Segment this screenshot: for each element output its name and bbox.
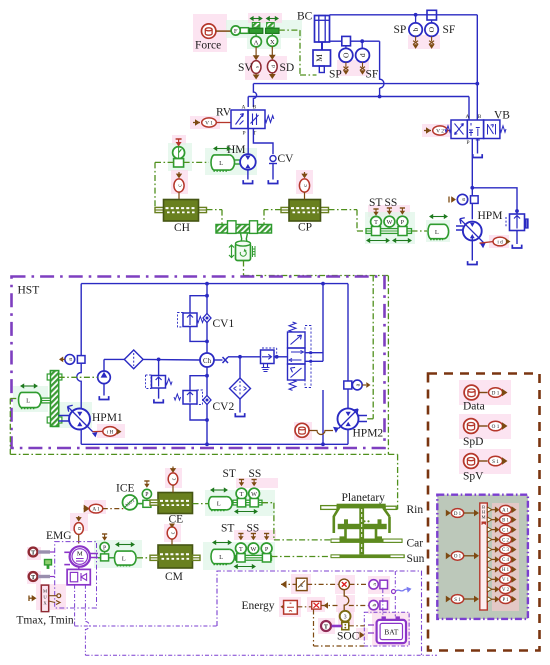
speed sensor A — [255, 33, 257, 36]
wire force to F — [216, 30, 232, 32]
svg-text:C 4: C 4 — [502, 558, 509, 563]
svg-text:M: M — [314, 54, 324, 62]
svg-text:s: s — [255, 66, 261, 68]
Rin stub — [385, 506, 396, 509]
BAT dashed box — [364, 612, 409, 646]
svg-text:A: A — [242, 105, 246, 111]
wire HST bottom line — [81, 443, 348, 445]
svg-text:A 1: A 1 — [92, 506, 100, 512]
svg-text:H 1: H 1 — [502, 568, 510, 573]
mass M of BC — [313, 50, 331, 66]
signal source V1 — [195, 119, 200, 125]
svg-text:c: c — [171, 477, 177, 480]
svg-text:Rin: Rin — [407, 504, 424, 516]
svg-text:a: a — [356, 383, 362, 386]
wire to junction — [351, 40, 380, 42]
shaft ICE to CE — [138, 503, 143, 505]
divide block — [281, 603, 287, 611]
MUX block — [41, 585, 48, 612]
check valve CV — [270, 156, 276, 162]
svg-text:Force: Force — [195, 40, 221, 52]
pressure sensor on HST left line — [77, 356, 85, 364]
svg-text:ST: ST — [369, 197, 382, 209]
output A1 — [487, 507, 492, 512]
mech line sensor to HM — [184, 161, 209, 163]
row1 sensor T — [239, 479, 244, 481]
signal to SV — [255, 47, 257, 56]
pressure sensor b — [415, 15, 417, 23]
battery BAT — [377, 620, 406, 643]
X multiplier — [297, 606, 311, 608]
speed sensor P of ICE — [144, 480, 149, 482]
svg-text:B 1: B 1 — [502, 518, 509, 523]
svg-text:L: L — [219, 160, 223, 167]
svg-text:BC: BC — [297, 11, 313, 23]
svg-text:M: M — [482, 515, 486, 520]
check diamond CV2 — [203, 396, 211, 405]
relief valve — [510, 214, 525, 231]
input S1 — [446, 596, 451, 603]
svg-text:T: T — [240, 491, 244, 498]
svg-text:L: L — [122, 555, 126, 562]
feedback loop — [349, 625, 365, 627]
pressure sensor a with square — [471, 196, 479, 204]
mech line CH to coupling — [207, 209, 223, 211]
signal source V2 — [426, 127, 431, 133]
svg-text:C 2: C 2 — [502, 538, 509, 543]
junction to filter2 — [238, 355, 242, 359]
svg-text:V 2: V 2 — [436, 128, 444, 134]
position sensor O — [345, 46, 347, 49]
mech motor to CM — [137, 557, 150, 559]
svg-text:Data: Data — [463, 401, 485, 413]
ground below d — [362, 62, 364, 67]
svg-text:P: P — [401, 219, 405, 226]
svg-text:P: P — [466, 140, 469, 146]
wires converter down — [74, 585, 76, 626]
output C2 — [487, 537, 492, 542]
row1 sensor W — [252, 479, 257, 481]
output P1 — [487, 597, 492, 602]
data sink O above EMG — [78, 516, 80, 520]
motor EMG — [70, 546, 90, 566]
svg-text:L: L — [26, 397, 30, 404]
output C4 — [487, 557, 492, 562]
svg-text:Car: Car — [407, 538, 424, 550]
legend Data — [464, 385, 479, 400]
svg-text:SP: SP — [329, 69, 342, 81]
clutch CE — [158, 493, 193, 514]
input O1 — [446, 552, 451, 559]
svg-text:SP: SP — [394, 24, 407, 36]
wire VB P down to HPM — [471, 139, 473, 220]
HST motor — [31, 392, 41, 407]
node Ch — [200, 353, 214, 367]
charge pump — [98, 371, 111, 384]
svg-text:M: M — [43, 589, 47, 594]
shaft with connectors — [366, 229, 412, 234]
svg-text:T: T — [31, 551, 35, 557]
mech row2 to sun — [272, 556, 331, 558]
wire rod-line vertical with hop — [380, 41, 384, 88]
wire HM to tank — [247, 170, 249, 180]
svg-text:EMG: EMG — [46, 530, 72, 542]
mech control line coupling to HPM2 — [243, 261, 245, 276]
top sensors: junction — [414, 13, 418, 17]
multiply node — [307, 583, 339, 585]
svg-text:HST: HST — [18, 285, 40, 297]
svg-text:SS: SS — [249, 468, 262, 480]
svg-text:k: k — [300, 583, 303, 589]
svg-text:c: c — [303, 184, 309, 187]
3pos valve — [288, 332, 306, 348]
svg-text:V 2: V 2 — [502, 588, 510, 593]
mech input line — [10, 398, 18, 400]
svg-text:M: M — [77, 551, 83, 558]
mech line CP to coupling — [264, 209, 281, 211]
junction — [470, 186, 474, 190]
svg-text:SV: SV — [238, 62, 253, 74]
svg-text:c: c — [178, 184, 184, 187]
svg-text:BAT: BAT — [384, 628, 399, 637]
engine ICE — [122, 495, 137, 510]
svg-text:Energy: Energy — [242, 600, 275, 612]
flow sensor O2 — [431, 20, 433, 23]
row1 motor — [222, 497, 233, 510]
data sink C above CE — [172, 467, 174, 471]
svg-text:SD: SD — [280, 62, 295, 74]
elastic coupling shaft bar — [216, 225, 272, 234]
mech line from ST SS to motor — [412, 230, 428, 232]
ground below O — [345, 62, 347, 67]
svg-text:b: b — [372, 603, 378, 606]
data sink C above CP — [304, 172, 306, 176]
shaft to motor — [456, 225, 463, 227]
sensor square above O — [342, 36, 351, 45]
sensor pair2 — [349, 605, 369, 607]
svg-text:ICE: ICE — [116, 483, 135, 495]
svg-text:a: a — [461, 198, 467, 201]
clutch CP — [281, 207, 289, 212]
wire HST left vertical with hop — [77, 284, 81, 445]
svg-text:CP: CP — [298, 222, 312, 234]
output V2 — [487, 587, 492, 592]
gearbox — [50, 371, 58, 427]
gearbox to charge pump mech — [59, 376, 98, 378]
shaft gearbox to HPM1 — [59, 415, 69, 417]
svg-text:L: L — [219, 554, 223, 561]
svg-text:3: 3 — [344, 614, 347, 620]
svg-text:P: P — [265, 546, 269, 553]
displacement sensor X — [271, 33, 273, 35]
svg-text:L: L — [435, 229, 439, 236]
svg-text:X: X — [270, 39, 275, 46]
wire charge line — [104, 358, 125, 360]
svg-text:o: o — [77, 527, 83, 530]
output H1 — [487, 567, 492, 572]
wire HPM to tank — [471, 237, 473, 261]
data sink SV — [251, 61, 261, 74]
svg-text:W: W — [386, 219, 392, 226]
green coupler — [45, 560, 52, 565]
svg-text:V 1: V 1 — [502, 578, 510, 583]
valve RV body — [231, 110, 248, 129]
wire RV T to CV — [253, 129, 273, 155]
gain k — [296, 578, 307, 590]
legend SpD — [464, 419, 479, 434]
svg-text:C 1: C 1 — [502, 528, 509, 533]
compensator valve — [228, 356, 261, 358]
svg-text:B: B — [253, 105, 257, 111]
junction bottom — [321, 442, 325, 446]
output B1 — [487, 517, 492, 522]
svg-text:P: P — [103, 545, 106, 551]
row2 sensor P — [264, 533, 269, 535]
EMG boundary box — [55, 542, 97, 608]
filter2 — [230, 378, 251, 399]
svg-text:RV: RV — [216, 107, 232, 119]
signal to SD — [271, 46, 273, 55]
mass M1 with friction — [249, 28, 262, 33]
svg-text:Tmax, Tmin: Tmax, Tmin — [16, 615, 74, 627]
svg-text:P: P — [242, 131, 245, 137]
relief valve CV2 — [205, 374, 209, 378]
svg-text:i H: i H — [107, 429, 114, 435]
mid relief valve — [158, 359, 160, 375]
T source SOC — [321, 621, 331, 631]
row2 sensor W — [251, 533, 256, 535]
wire HST top line — [81, 283, 348, 285]
ring input stub — [321, 506, 337, 510]
shaft HPM2 right — [359, 415, 368, 417]
valve VB body — [451, 120, 467, 139]
power sensor W — [387, 207, 392, 209]
svg-text:SS: SS — [247, 523, 260, 535]
svg-text:O 1: O 1 — [492, 424, 500, 430]
svg-text:HPM: HPM — [478, 210, 503, 222]
svg-text:SF: SF — [443, 24, 456, 36]
svg-text:d: d — [358, 53, 367, 57]
svg-text:T: T — [31, 575, 35, 581]
input D1 — [446, 510, 451, 517]
svg-text:HPM2: HPM2 — [353, 428, 384, 440]
svg-text:a: a — [68, 358, 74, 361]
svg-text:CH: CH — [174, 222, 190, 234]
wire net A: BC rod to RV port A and VB — [248, 96, 469, 98]
mech line CP to ST SS — [329, 209, 358, 211]
mech row1 to carrier — [262, 502, 274, 504]
svg-text:L: L — [217, 501, 221, 508]
svg-text:D 1: D 1 — [454, 512, 462, 517]
carrier bar — [338, 524, 386, 528]
svg-text:F: F — [234, 28, 238, 35]
svg-text:c: c — [170, 531, 176, 534]
junction top — [321, 282, 325, 286]
svg-text:Ch: Ch — [203, 358, 212, 365]
wire valve feed vertical — [322, 284, 324, 362]
svg-text:Sun: Sun — [407, 553, 425, 565]
svg-text:T: T — [239, 546, 243, 553]
wire VB T to tank — [477, 139, 479, 154]
signal i H — [92, 432, 98, 438]
hydraulic pump HM — [240, 154, 256, 170]
svg-text:SpD: SpD — [463, 436, 483, 448]
row2 motor — [224, 549, 235, 563]
svg-text:W: W — [251, 491, 257, 498]
source to HPM2 — [295, 423, 309, 437]
svg-text:CV2: CV2 — [213, 401, 235, 413]
BHM bar — [480, 503, 488, 610]
relief valve CV1 — [205, 294, 209, 298]
output V1 — [487, 577, 492, 582]
planetary ring — [337, 504, 385, 508]
legend SpV — [464, 454, 479, 469]
Car bar — [331, 539, 403, 543]
electric boundary lines — [75, 625, 217, 627]
svg-text:i d: i d — [497, 239, 503, 245]
svg-text:d: d — [271, 65, 277, 68]
svg-text:b: b — [411, 27, 420, 31]
battery wires — [382, 589, 384, 616]
svg-text:C 3: C 3 — [502, 548, 509, 553]
data sink SD — [267, 60, 277, 73]
wire net B: BC bore to RV port B and VB — [476, 15, 478, 84]
T source 1 — [29, 548, 38, 557]
mass M2 with friction — [266, 28, 279, 33]
bat left stubs — [368, 625, 374, 633]
svg-text:P 1: P 1 — [502, 598, 509, 603]
row1 shaft — [233, 500, 262, 505]
svg-text:SOC: SOC — [337, 631, 360, 643]
svg-text:B: B — [478, 114, 482, 120]
svg-text:CV1: CV1 — [213, 318, 235, 330]
input marker above sensor — [178, 139, 180, 145]
svg-text:SF: SF — [366, 69, 379, 81]
svg-text:O: O — [427, 26, 436, 32]
data sink C above CH — [178, 172, 180, 176]
signal source A1 — [84, 505, 90, 513]
wave output — [392, 590, 396, 594]
wire HST right vertical — [347, 284, 349, 409]
force source Force — [202, 24, 216, 38]
row2 shaft — [236, 555, 272, 560]
svg-text:Λ: Λ — [254, 39, 259, 46]
clutch CH — [155, 207, 164, 212]
Sun bar — [331, 554, 405, 558]
sensor g with square — [344, 381, 352, 389]
carrier legs — [340, 529, 383, 538]
tank below CV — [268, 180, 277, 183]
svg-text:CV: CV — [278, 153, 295, 165]
mech link chain to BC mass — [279, 29, 300, 31]
svg-text:D 1: D 1 — [492, 390, 500, 396]
central shaft — [359, 508, 364, 555]
wire relief to tank — [516, 231, 518, 245]
check diamond CV1 — [203, 314, 211, 323]
HST subsystem border — [12, 277, 385, 449]
svg-text:P: P — [145, 492, 148, 498]
shaft EMG out — [90, 553, 98, 555]
svg-text:S 1: S 1 — [492, 459, 499, 465]
svg-text:ST: ST — [223, 468, 236, 480]
variable pump HPM — [463, 222, 482, 241]
SOC gain — [340, 611, 351, 622]
valve right ports — [305, 352, 323, 354]
svg-text:O 1: O 1 — [454, 555, 462, 560]
mech CE to motor — [193, 503, 209, 505]
force gauge F — [231, 26, 240, 35]
pump HPM1 — [69, 409, 90, 430]
svg-text:ST: ST — [221, 523, 234, 535]
junction ch top — [205, 282, 209, 286]
data sink C above CM — [167, 527, 177, 539]
wire RV P to HM — [247, 129, 249, 149]
svg-text:O: O — [341, 52, 350, 58]
svg-text:SS: SS — [385, 197, 398, 209]
electric motor of HM — [224, 155, 235, 170]
mux outputs — [49, 595, 57, 597]
legend border — [428, 374, 540, 651]
svg-text:S 1: S 1 — [454, 598, 461, 603]
speed sensor P — [400, 207, 405, 209]
output C3 — [487, 547, 492, 552]
coupling damper drum — [241, 233, 248, 243]
junction — [360, 39, 364, 43]
torque sensor — [173, 147, 185, 159]
plug X right of Ch — [223, 357, 229, 363]
converter block — [67, 569, 90, 584]
svg-text:W: W — [250, 546, 256, 553]
svg-text:SpV: SpV — [463, 471, 484, 483]
filter1 — [124, 350, 143, 369]
signal source i d — [480, 243, 486, 248]
link — [240, 28, 248, 34]
wire to relief — [472, 188, 517, 214]
highlight tints — [193, 14, 227, 52]
pump HPM2 — [338, 408, 359, 429]
current sensor pair1 — [369, 580, 378, 589]
shaft HM — [235, 159, 241, 161]
speed sensor d — [361, 43, 363, 49]
electric subsystem border — [217, 571, 422, 655]
torque sensor T — [373, 208, 378, 210]
output C1 — [487, 527, 492, 532]
T source 2 — [29, 572, 38, 581]
svg-text:Planetary: Planetary — [342, 492, 386, 504]
svg-text:CM: CM — [165, 571, 183, 583]
sensor square SF — [427, 10, 437, 20]
wire VB port B drop — [476, 84, 478, 120]
svg-text:HPM1: HPM1 — [92, 412, 123, 424]
speed sensor P of EMG — [102, 533, 107, 535]
hydraulic cylinder BC — [315, 16, 330, 43]
drive motor — [439, 224, 448, 238]
hook hop — [344, 590, 349, 611]
mech HST output to ring — [10, 453, 397, 455]
wire BC rod line — [330, 40, 342, 42]
row2 sensor T — [238, 533, 243, 535]
svg-text:V 1: V 1 — [205, 120, 213, 126]
svg-text:A: A — [466, 114, 470, 120]
EMG drive motor — [126, 551, 136, 565]
connector box — [437, 495, 528, 619]
svg-text:T: T — [374, 219, 378, 226]
svg-text:A 1: A 1 — [502, 508, 509, 513]
wire BC bore line — [330, 14, 478, 16]
mech line sensor to CH — [155, 161, 174, 163]
clutch CM — [158, 545, 193, 568]
